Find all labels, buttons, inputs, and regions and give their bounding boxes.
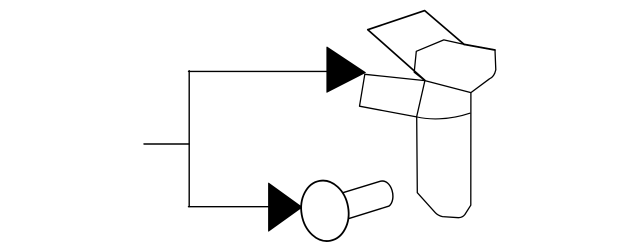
push-pin dome head xyxy=(296,177,353,245)
wire: left callout stub xyxy=(144,143,189,145)
mounting plate rectangle xyxy=(360,74,425,117)
arrowhead A1 (to retractor assembly) xyxy=(327,47,365,92)
wire: bottom leader to push-pin xyxy=(189,206,271,208)
retractor top flap plate xyxy=(368,11,464,81)
wire: top leader to retractor xyxy=(189,70,329,72)
wire: vertical callout trunk xyxy=(188,71,190,207)
cover heavy right shoulder edge xyxy=(464,44,495,50)
webbing strap outline xyxy=(417,81,471,218)
push-pin shank xyxy=(338,181,393,219)
retractor cover xyxy=(414,40,496,93)
arrowhead A2 (to push-pin) xyxy=(269,183,302,231)
webbing fold line xyxy=(417,113,470,119)
